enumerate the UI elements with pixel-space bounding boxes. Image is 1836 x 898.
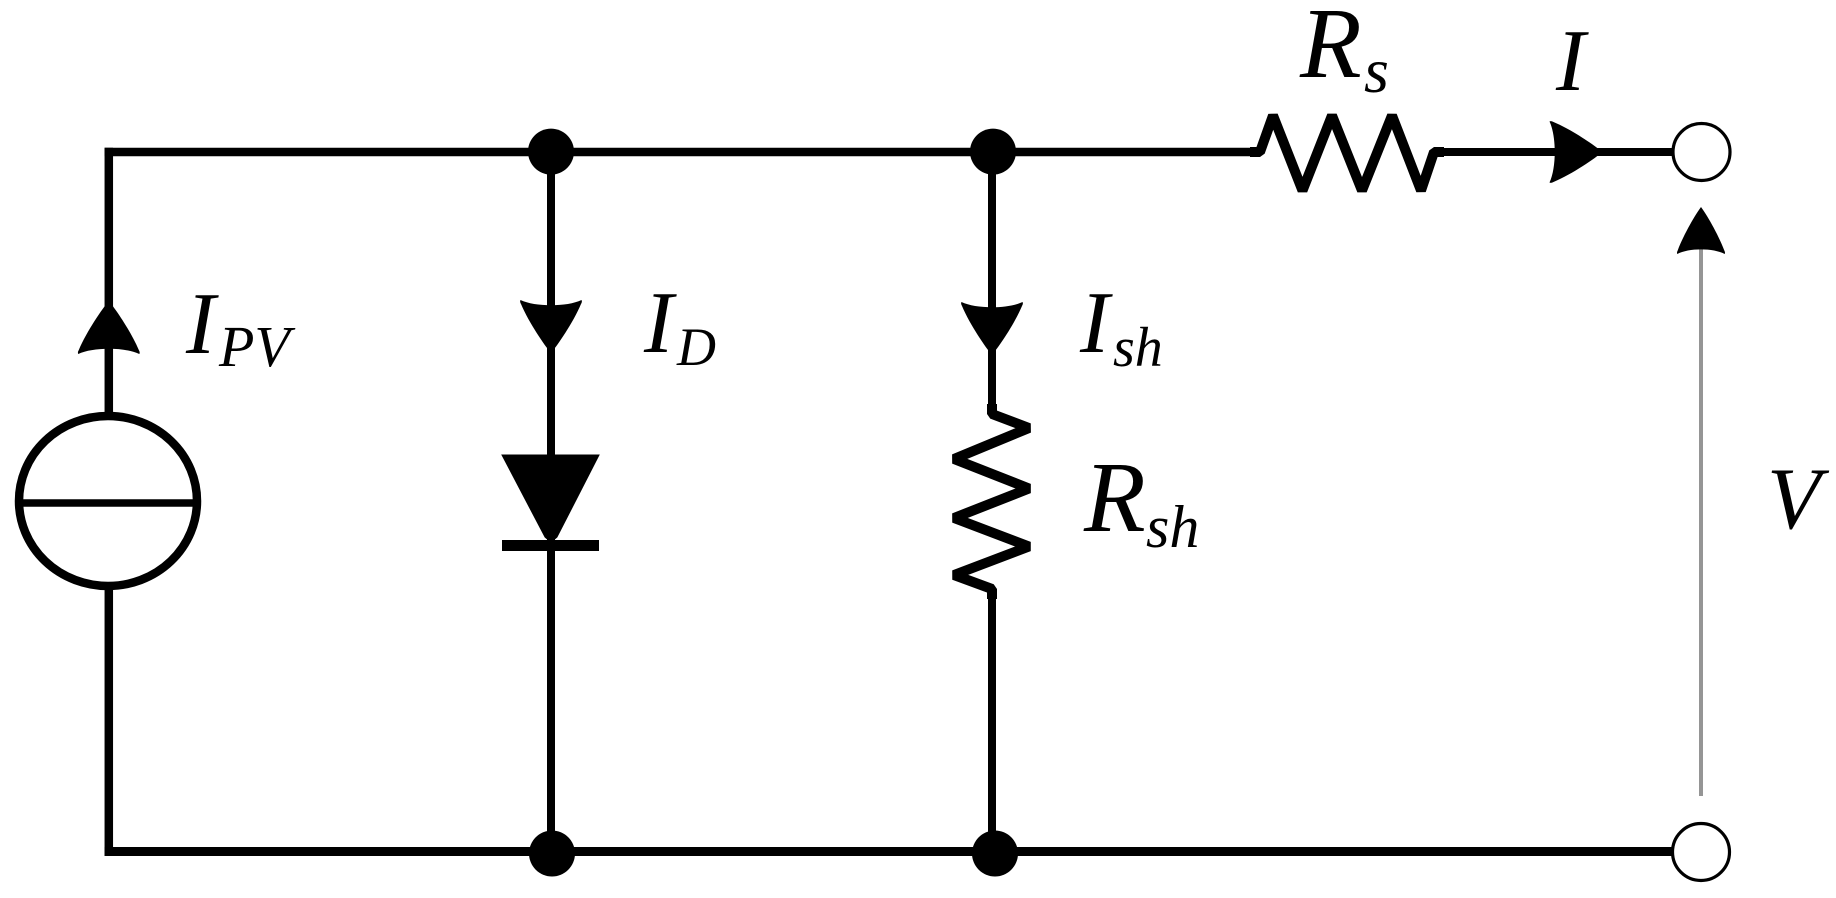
- terminal top: [1673, 124, 1730, 181]
- V arrow line: [1699, 248, 1703, 796]
- svg-text:s: s: [1364, 35, 1389, 106]
- arrow I right: [1550, 121, 1603, 183]
- svg-text:D: D: [676, 317, 716, 377]
- terminal bottom: [1673, 824, 1730, 881]
- svg-text:I: I: [185, 276, 219, 373]
- V arrowhead: [1677, 207, 1725, 254]
- svg-text:sh: sh: [1113, 317, 1163, 379]
- arrow ID down: [520, 300, 582, 353]
- wire Rsh branch lower: [988, 588, 996, 852]
- node dot top Rsh junction: [970, 129, 1016, 175]
- svg-text:sh: sh: [1146, 494, 1199, 560]
- arrow IPV up: [78, 301, 140, 354]
- label I_D: [643, 275, 716, 377]
- resistor Rsh zigzag: [954, 404, 1029, 599]
- svg-text:I: I: [1555, 13, 1589, 110]
- node dot bottom Rsh junction: [972, 831, 1018, 877]
- svg-text:I: I: [1079, 275, 1113, 372]
- svg-text:R: R: [1299, 0, 1362, 99]
- resistor Rs zigzag: [1250, 116, 1444, 191]
- label I_PV: [185, 276, 296, 379]
- node dot top diode junction: [528, 129, 574, 175]
- wire left branch upper: [105, 148, 114, 420]
- svg-text:PV: PV: [218, 314, 296, 379]
- wire bottom rail: [105, 847, 1672, 856]
- wire Rsh branch upper: [988, 152, 996, 415]
- wire top rail right segment: [1434, 148, 1673, 156]
- node dot bottom diode junction: [529, 831, 575, 877]
- wire top rail: [105, 148, 1261, 157]
- svg-text:V: V: [1767, 451, 1830, 548]
- label R_sh: [1083, 441, 1199, 560]
- diode D1: [502, 455, 599, 546]
- arrow Ish down: [961, 302, 1023, 355]
- current source IPV circle: [17, 416, 199, 586]
- svg-text:I: I: [643, 275, 677, 372]
- label R_s: [1299, 0, 1389, 106]
- svg-text:R: R: [1083, 441, 1146, 553]
- wire left branch lower: [105, 584, 114, 856]
- label I_sh: [1079, 275, 1163, 379]
- wire diode branch: [547, 152, 555, 852]
